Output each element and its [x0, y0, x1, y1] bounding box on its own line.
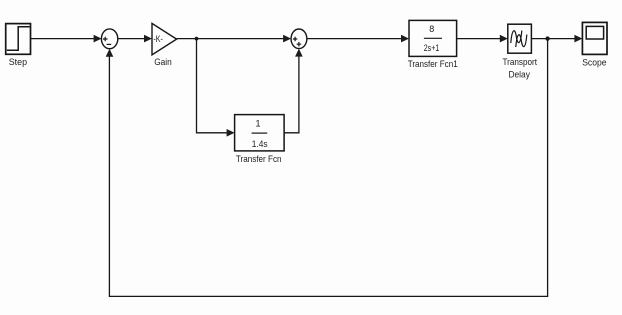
gain block Gain — [152, 23, 177, 54]
svg-text:-K-: -K- — [153, 34, 163, 44]
arrowhead into Transfer Fcn — [227, 129, 235, 137]
wire branch down to Transfer Fcn — [197, 39, 228, 133]
step source Step — [6, 24, 31, 55]
transfer function block Transfer Fcn — [235, 115, 285, 151]
fraction bar — [424, 37, 442, 39]
scope block Scope — [582, 22, 607, 54]
summing junction Sum2 — [291, 29, 307, 49]
wire Step to Sum1 — [31, 38, 95, 40]
Sum1 plus sign (left input) — [103, 37, 108, 42]
delay icon sine wave 1 — [511, 31, 522, 44]
svg-text:Transfer Fcn1: Transfer Fcn1 — [408, 59, 458, 70]
arrowhead into Sum2 — [283, 35, 291, 43]
scope screen — [586, 26, 603, 39]
arrowhead into Sum1 bottom — [106, 49, 114, 57]
arrowhead into Gain — [144, 35, 152, 43]
arrowhead into Transport Delay — [500, 35, 508, 43]
svg-text:Delay: Delay — [508, 70, 530, 81]
Sum2 plus sign (bottom input) — [297, 42, 302, 47]
junction dot feedback takeoff — [545, 36, 549, 40]
Sum1 minus sign (bottom input) — [107, 43, 112, 45]
delay icon sine wave 2 — [516, 35, 527, 48]
svg-text:Step: Step — [9, 57, 27, 68]
svg-text:Scope: Scope — [582, 58, 606, 69]
Sum2 plus sign (left input) — [293, 37, 297, 41]
wire outer feedback loop — [109, 39, 547, 297]
arrowhead into Scope — [574, 35, 582, 43]
arrowhead into Transfer Fcn1 — [401, 35, 409, 43]
svg-text:8: 8 — [429, 24, 434, 34]
step icon waveform — [7, 27, 30, 50]
wire Transport Delay to Scope — [531, 38, 575, 40]
wire Sum1 to Gain — [118, 38, 145, 40]
svg-text:1: 1 — [255, 119, 260, 129]
wire Sum2 to Transfer Fcn1 — [307, 38, 402, 40]
svg-text:2s+1: 2s+1 — [424, 43, 440, 53]
summing junction Sum1 — [101, 29, 117, 49]
arrowhead into Sum1 — [94, 35, 102, 43]
wire Gain to Sum2 — [177, 38, 284, 40]
wire Transfer Fcn1 to Transport Delay — [457, 38, 501, 40]
fraction bar — [252, 132, 268, 134]
transport delay block Transport Delay — [508, 24, 532, 53]
svg-text:Gain: Gain — [154, 57, 172, 68]
arrowhead into Sum2 bottom — [295, 49, 303, 57]
svg-text:1.4s: 1.4s — [252, 139, 268, 149]
svg-text:Transport: Transport — [503, 57, 538, 68]
transfer function block Transfer Fcn1 — [409, 20, 457, 56]
junction dot after Gain — [195, 37, 199, 41]
wire Transfer Fcn to Sum2 bottom — [284, 56, 299, 133]
svg-text:Transfer Fcn: Transfer Fcn — [236, 154, 282, 165]
